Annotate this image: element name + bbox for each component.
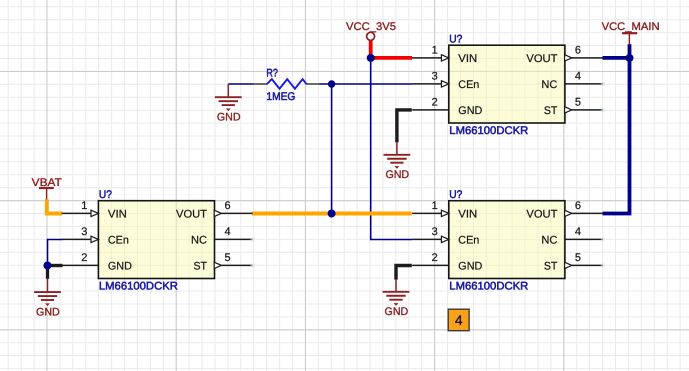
svg-text:LM66100DCKR: LM66100DCKR bbox=[449, 281, 528, 293]
svg-text:GND: GND bbox=[217, 111, 241, 123]
svg-text:GND: GND bbox=[385, 169, 409, 181]
svg-text:LM66100DCKR: LM66100DCKR bbox=[449, 125, 528, 137]
svg-text:1: 1 bbox=[432, 44, 438, 56]
svg-text:1: 1 bbox=[81, 200, 87, 212]
svg-text:4: 4 bbox=[575, 70, 581, 82]
svg-text:2: 2 bbox=[432, 252, 438, 264]
svg-text:VIN: VIN bbox=[458, 208, 477, 220]
svg-text:LM66100DCKR: LM66100DCKR bbox=[99, 281, 178, 293]
svg-text:VOUT: VOUT bbox=[176, 208, 207, 220]
svg-text:2: 2 bbox=[432, 96, 438, 108]
svg-text:3: 3 bbox=[432, 70, 438, 82]
svg-text:2: 2 bbox=[81, 252, 87, 264]
svg-text:NC: NC bbox=[191, 234, 207, 246]
svg-text:NC: NC bbox=[541, 79, 557, 91]
svg-text:VCC_3V5: VCC_3V5 bbox=[346, 21, 396, 33]
svg-text:R?: R? bbox=[266, 67, 278, 79]
svg-text:GND: GND bbox=[458, 105, 482, 117]
svg-text:VOUT: VOUT bbox=[526, 208, 557, 220]
svg-text:6: 6 bbox=[225, 200, 231, 212]
svg-text:3: 3 bbox=[432, 226, 438, 238]
svg-text:1: 1 bbox=[432, 200, 438, 212]
svg-text:CEn: CEn bbox=[458, 79, 479, 91]
svg-text:GND: GND bbox=[385, 306, 409, 318]
svg-text:U?: U? bbox=[99, 189, 112, 201]
svg-text:1MEG: 1MEG bbox=[266, 91, 295, 103]
svg-text:4: 4 bbox=[225, 226, 231, 238]
svg-text:3: 3 bbox=[81, 226, 87, 238]
svg-text:6: 6 bbox=[575, 200, 581, 212]
svg-text:4: 4 bbox=[575, 226, 581, 238]
svg-text:GND: GND bbox=[36, 306, 60, 318]
svg-text:U?: U? bbox=[449, 189, 462, 201]
svg-text:5: 5 bbox=[575, 96, 581, 108]
svg-text:CEn: CEn bbox=[108, 234, 129, 246]
svg-text:CEn: CEn bbox=[458, 234, 479, 246]
svg-text:VCC_MAIN: VCC_MAIN bbox=[602, 21, 660, 33]
svg-text:5: 5 bbox=[575, 252, 581, 264]
svg-text:NC: NC bbox=[541, 234, 557, 246]
svg-text:GND: GND bbox=[458, 260, 482, 272]
svg-text:ST: ST bbox=[194, 260, 208, 272]
svg-text:5: 5 bbox=[225, 252, 231, 264]
svg-text:U?: U? bbox=[449, 34, 462, 46]
svg-text:4: 4 bbox=[455, 312, 463, 328]
svg-text:6: 6 bbox=[575, 44, 581, 56]
